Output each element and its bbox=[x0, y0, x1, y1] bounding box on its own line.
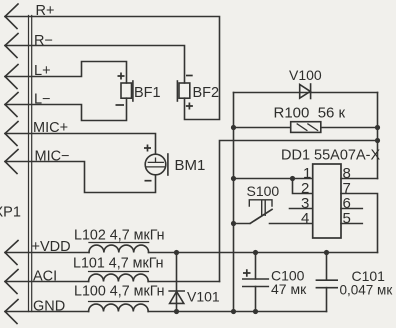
wire ACI riser and top row to right rail bbox=[220, 141, 378, 282]
wire ACI row bbox=[5, 281, 220, 283]
node rail-ACI right bbox=[375, 138, 380, 143]
polarity marks bbox=[116, 73, 251, 277]
BF1 minus bbox=[116, 104, 125, 106]
svg-text:BF1: BF1 bbox=[134, 85, 161, 101]
pin ACI contact chevron bbox=[5, 270, 18, 294]
BM1 minus bbox=[145, 180, 152, 182]
wire pin 1 row bbox=[234, 178, 313, 180]
svg-text:0,047 мк: 0,047 мк bbox=[340, 283, 393, 298]
node VDD-C100 bbox=[253, 250, 258, 255]
node GND-C100 bbox=[253, 309, 258, 314]
node rail-R100 bbox=[231, 125, 236, 130]
svg-text:MIC+: MIC+ bbox=[33, 120, 68, 136]
wire R- (to BF2 top) bbox=[5, 46, 185, 84]
headphone BF2 bbox=[177, 81, 189, 101]
svg-text:47 мк: 47 мк bbox=[271, 281, 307, 297]
svg-text:L101 4,7 мкГн: L101 4,7 мкГн bbox=[73, 256, 164, 272]
wire pin 4 row (through S100) bbox=[234, 223, 313, 225]
svg-text:L−: L− bbox=[34, 92, 51, 108]
svg-text:BF2: BF2 bbox=[193, 85, 220, 101]
svg-text:V100: V100 bbox=[289, 67, 322, 83]
wire pin 3 stub bbox=[290, 208, 313, 210]
pin R- contact chevron bbox=[5, 34, 18, 58]
pin L+ contact chevron bbox=[5, 65, 18, 89]
capacitor C101 bbox=[316, 253, 337, 312]
BF2 plus bbox=[186, 103, 193, 110]
BF1 plus bbox=[118, 73, 125, 80]
svg-text:L102 4,7 мкГн: L102 4,7 мкГн bbox=[74, 228, 165, 244]
node: right rail (V100/R100 right to pin 8) bbox=[377, 93, 379, 179]
wire +VDD row bbox=[5, 252, 378, 254]
inductor L101 bbox=[89, 272, 149, 282]
svg-text:ACI: ACI bbox=[33, 269, 57, 285]
resistor R100 bbox=[234, 122, 378, 133]
wire V100 row bbox=[234, 92, 378, 94]
pin L- contact chevron bbox=[5, 93, 18, 117]
svg-text:R−: R− bbox=[34, 33, 53, 49]
diode V101 bbox=[169, 253, 184, 312]
headphone BF1 bbox=[121, 81, 133, 101]
node rail-pin1 bbox=[231, 176, 236, 181]
wire pin 7 row down to +VDD row bbox=[341, 194, 378, 253]
wire R+ (to BF2 bottom loop) bbox=[5, 17, 220, 120]
pin MIC+ contact chevron bbox=[5, 122, 18, 146]
IC DD1 body bbox=[313, 164, 341, 238]
connector XP1 body (double vertical line) bbox=[29, 16, 32, 312]
push button S100 bbox=[249, 200, 272, 224]
svg-text:S100: S100 bbox=[247, 183, 280, 199]
svg-text:V101: V101 bbox=[187, 289, 220, 305]
wire MIC- (to BM1 bottom loop) bbox=[5, 162, 156, 193]
svg-text:GND: GND bbox=[33, 299, 65, 315]
wire L+ (to BF1 top) bbox=[5, 62, 127, 84]
svg-text:5: 5 bbox=[343, 210, 351, 227]
node VDD-V101 bbox=[174, 250, 179, 255]
pin R+ contact chevron bbox=[5, 4, 18, 29]
node rail-pin4 bbox=[231, 221, 236, 226]
wire MIC+ (to BM1 top) bbox=[5, 134, 156, 155]
svg-text:R100 56 к: R100 56 к bbox=[274, 105, 346, 122]
wire pin 8 row to right rail bbox=[341, 178, 378, 180]
svg-text:XP1: XP1 bbox=[0, 205, 21, 221]
pin +VDD contact chevron bbox=[5, 241, 18, 265]
node rail-R100 right bbox=[375, 125, 380, 130]
wire pin 5 stub bbox=[341, 223, 362, 225]
wire pin 2 link bbox=[293, 179, 313, 194]
C100 plus bbox=[243, 269, 251, 277]
capacitor C100 bbox=[243, 253, 268, 312]
inductor L100 bbox=[89, 302, 149, 312]
svg-text:R+: R+ bbox=[36, 3, 55, 19]
node GND-rail bbox=[231, 309, 236, 314]
svg-text:+VDD: +VDD bbox=[32, 239, 71, 255]
svg-text:MIC−: MIC− bbox=[35, 149, 70, 165]
pin GND contact chevron bbox=[5, 300, 18, 324]
diode V100 bbox=[300, 84, 311, 99]
wire pin 6 stub bbox=[341, 208, 362, 210]
svg-text:L+: L+ bbox=[34, 63, 51, 79]
node VDD-C101 bbox=[324, 250, 329, 255]
inductor L102 bbox=[89, 243, 149, 253]
BM1 plus bbox=[144, 145, 151, 152]
wire GND row bbox=[5, 311, 327, 313]
pin MIC- contact chevron bbox=[5, 150, 18, 174]
BF2 minus bbox=[186, 75, 193, 77]
svg-text:4: 4 bbox=[301, 210, 309, 227]
svg-text:DD1 55A07A-X: DD1 55A07A-X bbox=[281, 148, 380, 164]
microphone BM1 bbox=[145, 154, 168, 175]
node pin1-pin2 bbox=[290, 176, 295, 181]
svg-text:L100 4,7 мкГн: L100 4,7 мкГн bbox=[74, 284, 165, 300]
node: left rail (R100/V100 left, pins 1-2, S100, GND) bbox=[233, 93, 235, 312]
node GND-V101 bbox=[174, 309, 179, 314]
svg-text:BM1: BM1 bbox=[175, 157, 206, 174]
wire L- (to BF1 bottom loop) bbox=[5, 98, 127, 120]
